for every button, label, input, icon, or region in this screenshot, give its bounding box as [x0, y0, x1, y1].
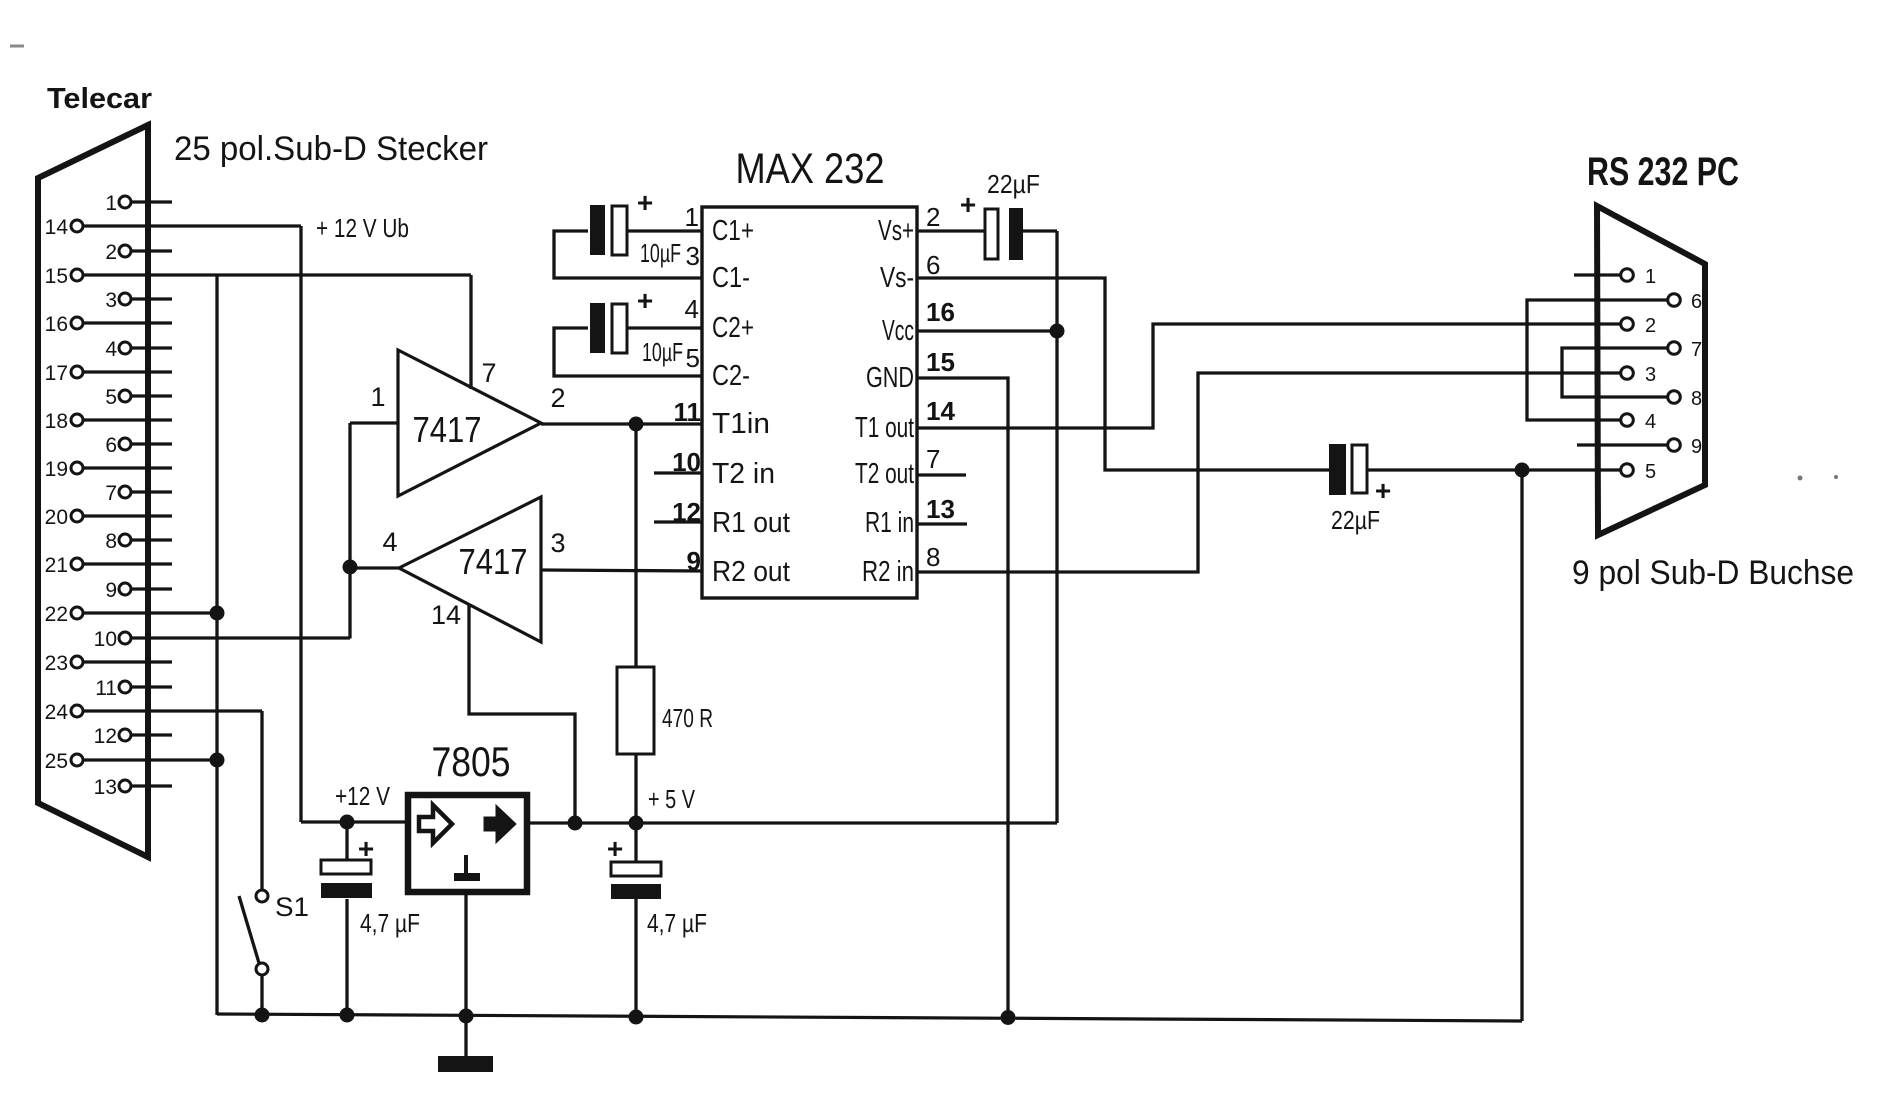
svg-text:T1in: T1in: [712, 408, 770, 440]
wire C2 loop to C2- pin: [554, 328, 702, 376]
svg-text:10: 10: [672, 447, 701, 477]
wire U1 input pin1 horizontal: [350, 421, 398, 424]
svg-text:Vs-: Vs-: [880, 262, 914, 294]
wire Vs+ pin to capacitor C3: [917, 229, 985, 232]
svg-text:8: 8: [1691, 388, 1702, 410]
wire R1 bottom to +5V rail: [634, 754, 637, 823]
wire C5 top: [345, 822, 348, 860]
svg-text:2: 2: [105, 241, 117, 264]
wire U1 output to MAX232 T1in: [541, 422, 702, 425]
svg-text:2: 2: [1645, 315, 1656, 337]
resistor R1 470R: [617, 667, 654, 754]
wire ground return vertical right: [1520, 470, 1523, 1021]
wire U4 ground pin drop: [464, 891, 467, 1016]
J2 pin 9: [1668, 439, 1681, 452]
svg-text:+: +: [960, 189, 976, 220]
svg-text:21: 21: [45, 554, 68, 577]
switch S1 bottom contact: [256, 963, 268, 975]
svg-text:6: 6: [1691, 291, 1702, 313]
wire ground bottom rail: [217, 1014, 1522, 1021]
wire C3 to Vcc/+5V riser: [1023, 229, 1057, 232]
svg-text:3: 3: [686, 241, 700, 271]
svg-text:9: 9: [105, 579, 117, 602]
J2 pin 8: [1668, 391, 1681, 404]
svg-text:GND: GND: [866, 362, 914, 394]
svg-text:1: 1: [685, 202, 699, 232]
switch S1 top contact: [256, 890, 268, 902]
svg-text:S1: S1: [275, 892, 309, 922]
svg-text:13: 13: [94, 776, 117, 799]
svg-text:+: +: [607, 833, 623, 864]
svg-text:12: 12: [672, 497, 701, 527]
svg-text:22µF: 22µF: [987, 169, 1040, 199]
wire U2 output to node A: [350, 566, 399, 569]
svg-text:+: +: [637, 187, 653, 218]
svg-text:10µF: 10µF: [642, 337, 683, 367]
svg-text:24: 24: [45, 701, 69, 724]
svg-text:+ 12 V Ub: + 12 V Ub: [316, 213, 409, 243]
svg-text:7: 7: [1691, 339, 1702, 361]
svg-text:RS 232 PC: RS 232 PC: [1587, 150, 1739, 194]
svg-text:C1+: C1+: [712, 215, 754, 247]
ground symbol: [464, 1016, 467, 1057]
svg-text:+: +: [358, 833, 374, 864]
svg-text:2: 2: [926, 202, 940, 232]
connector J2 9-pol Sub-D body: [1597, 206, 1705, 535]
wire GND pin drop: [917, 378, 1008, 1018]
svg-text:R1 out: R1 out: [712, 507, 790, 539]
svg-text:20: 20: [45, 506, 68, 529]
node A junction (U2 out / U1 in / J1 pin10): [343, 560, 358, 575]
svg-text:7805: 7805: [432, 738, 511, 785]
J2 pin 2: [1621, 318, 1634, 331]
svg-text:10: 10: [94, 628, 117, 651]
buffer U1 7417: [398, 350, 541, 496]
wire T2 in stub (U3 left): [654, 471, 702, 474]
J2 pin 1: [1621, 269, 1634, 282]
svg-text:Telecar: Telecar: [47, 83, 152, 115]
svg-text:6: 6: [105, 434, 117, 457]
scan specks: [1798, 476, 1803, 481]
capacitor C1 10uF: [590, 205, 605, 255]
U4 input arrow (open): [419, 805, 452, 843]
svg-text:R1 in: R1 in: [865, 507, 914, 539]
IC U3 MAX232 body: [702, 207, 917, 598]
svg-text:+12 V: +12 V: [335, 781, 391, 811]
switch S1 lever: [239, 896, 259, 963]
svg-text:13: 13: [926, 494, 955, 524]
svg-text:Vs+: Vs+: [878, 215, 914, 247]
wire S1 to bottom rail: [260, 975, 263, 1015]
svg-text:7417: 7417: [459, 541, 528, 582]
svg-text:4: 4: [382, 527, 397, 557]
svg-text:1: 1: [105, 192, 117, 215]
wire U2 pin14 to +5V rail: [469, 604, 575, 823]
svg-text:C1-: C1-: [712, 262, 750, 294]
junction J1 pin 22 to ground net: [210, 606, 225, 621]
svg-text:25: 25: [45, 750, 68, 773]
svg-text:C2+: C2+: [712, 312, 754, 344]
svg-text:4,7 µF: 4,7 µF: [647, 908, 707, 938]
svg-text:T1 out: T1 out: [855, 412, 914, 444]
junction C5 at bottom rail: [340, 1008, 355, 1023]
svg-text:3: 3: [550, 528, 565, 558]
svg-text:R2 in: R2 in: [862, 556, 914, 588]
J2 link pins 7-8: [1562, 348, 1668, 397]
wire U1 pin7 ground drop: [469, 275, 472, 389]
node T1in junction: [629, 417, 644, 432]
J2 pin 6: [1668, 294, 1681, 307]
svg-text:MAX 232: MAX 232: [736, 145, 885, 193]
svg-text:7: 7: [926, 444, 940, 474]
wire +5V rail: [526, 821, 1057, 824]
junction ground return at DB9 pin5: [1515, 463, 1530, 478]
svg-text:18: 18: [45, 410, 68, 433]
svg-text:9 pol Sub-D Buchse: 9 pol Sub-D Buchse: [1572, 554, 1854, 592]
svg-text:6: 6: [926, 250, 940, 280]
wire C2+ pin to capacitor C2: [627, 326, 702, 329]
wire J1 pin10 riser to node A: [348, 423, 351, 639]
svg-text:10µF: 10µF: [640, 238, 681, 268]
junction U2 pin14 at +5V rail: [568, 816, 583, 831]
svg-text:2: 2: [550, 383, 565, 413]
svg-text:1: 1: [370, 382, 385, 412]
wire ground net vertical from J1 pin 15: [215, 275, 218, 1015]
svg-text:7: 7: [105, 482, 117, 505]
scan speck top-left: [10, 45, 24, 48]
svg-text:8: 8: [105, 530, 117, 553]
wire S1 drop from J1 pin 24: [260, 711, 263, 890]
junction +12V at C5: [340, 815, 355, 830]
buffer U2 7417: [399, 497, 541, 642]
svg-text:19: 19: [45, 458, 68, 481]
wire C5 bottom: [345, 899, 348, 1015]
wire Vs- to C4: [917, 278, 1329, 470]
wire T1in node to R1: [634, 424, 637, 667]
wire +5V riser vertical: [1055, 231, 1058, 823]
svg-text:16: 16: [45, 313, 68, 336]
svg-text:8: 8: [926, 542, 940, 572]
junction C6 at bottom rail: [629, 1010, 644, 1025]
svg-text:7: 7: [481, 358, 496, 388]
svg-text:R2 out: R2 out: [712, 556, 790, 588]
wire Vcc pin to riser: [917, 329, 1057, 332]
svg-text:14: 14: [45, 216, 69, 239]
J2 pin 4: [1621, 414, 1634, 427]
wire +12V into U4: [301, 820, 408, 823]
wire R1 in stub: [917, 522, 967, 525]
junction GND at bottom rail: [1001, 1010, 1016, 1025]
capacitor C5 4,7uF: [321, 860, 371, 874]
wire C6 bottom: [634, 899, 637, 1017]
U4 output arrow (filled): [484, 805, 516, 843]
svg-text:5: 5: [1645, 461, 1656, 483]
svg-text:+ 5 V: + 5 V: [648, 784, 695, 814]
svg-text:+: +: [1375, 475, 1391, 506]
capacitor C6 4,7uF: [611, 862, 661, 876]
svg-text:4: 4: [105, 338, 117, 361]
capacitor C3 22uF: [985, 209, 998, 259]
svg-text:11: 11: [674, 397, 702, 427]
wire U2 input from MAX232 R2out: [541, 570, 702, 571]
svg-text:15: 15: [45, 265, 68, 288]
svg-text:14: 14: [926, 396, 955, 426]
junction Vcc node: [1050, 324, 1065, 339]
svg-text:Vcc: Vcc: [882, 315, 914, 347]
svg-text:T2 out: T2 out: [855, 458, 914, 490]
wire R2 in to DB9 pin 3: [917, 373, 1621, 572]
J2 pin 7: [1668, 342, 1681, 355]
svg-text:17: 17: [45, 362, 68, 385]
svg-text:23: 23: [45, 652, 68, 675]
svg-text:+: +: [637, 285, 653, 316]
svg-text:T2 in: T2 in: [712, 458, 775, 490]
wire C6 top: [634, 823, 637, 862]
svg-text:16: 16: [926, 297, 955, 327]
svg-text:5: 5: [686, 343, 700, 373]
svg-text:12: 12: [94, 725, 117, 748]
capacitor C2 10uF: [590, 303, 605, 353]
svg-text:7417: 7417: [413, 409, 482, 450]
connector J1 25-pol Sub-D body: [38, 125, 148, 857]
svg-text:9: 9: [1691, 436, 1702, 458]
wire T2 out stub: [917, 473, 966, 476]
svg-text:5: 5: [105, 386, 117, 409]
svg-text:14: 14: [431, 600, 461, 630]
svg-text:3: 3: [1645, 364, 1656, 386]
J2 pin 3: [1621, 367, 1634, 380]
wire C1 loop to C1- pin: [554, 231, 702, 278]
wire +12V Ub vertical from J1 pin 14: [299, 226, 302, 822]
junction R1/C6 at +5V rail: [629, 816, 644, 831]
regulator U4 7805 body: [408, 795, 527, 892]
wire T1 out to DB9 pin 2: [917, 324, 1621, 428]
svg-text:22µF: 22µF: [1331, 505, 1380, 535]
svg-text:9: 9: [687, 546, 701, 576]
svg-text:4: 4: [1645, 411, 1656, 433]
svg-text:4: 4: [685, 294, 699, 324]
svg-text:470 R: 470 R: [662, 703, 713, 733]
wire C4 to DB9 pin 5: [1367, 468, 1621, 471]
J2 link pins 6-4: [1527, 300, 1668, 420]
junction J1 pin 25 to ground net: [210, 753, 225, 768]
J2 pin 1 stub: [1574, 273, 1621, 276]
J2 pin 5: [1621, 464, 1634, 477]
capacitor C4 22uF (series to DB9 pin5): [1329, 444, 1346, 495]
junction U4 gnd at bottom rail: [459, 1009, 474, 1024]
J2 pin 9 stub: [1577, 443, 1668, 446]
wire C1+ pin to capacitor C1: [627, 229, 702, 232]
svg-text:22: 22: [45, 603, 68, 626]
svg-text:15: 15: [926, 347, 955, 377]
svg-text:1: 1: [1645, 266, 1656, 288]
U4 internal ground mark: [464, 855, 468, 874]
junction S1 at bottom rail: [255, 1008, 270, 1023]
svg-text:11: 11: [95, 677, 117, 700]
svg-text:25 pol.Sub-D Stecker: 25 pol.Sub-D Stecker: [174, 130, 488, 168]
svg-text:C2-: C2-: [712, 360, 750, 392]
svg-text:3: 3: [105, 289, 117, 312]
wire R1 out stub (U3 left): [654, 520, 702, 523]
svg-text:4,7 µF: 4,7 µF: [360, 908, 420, 938]
